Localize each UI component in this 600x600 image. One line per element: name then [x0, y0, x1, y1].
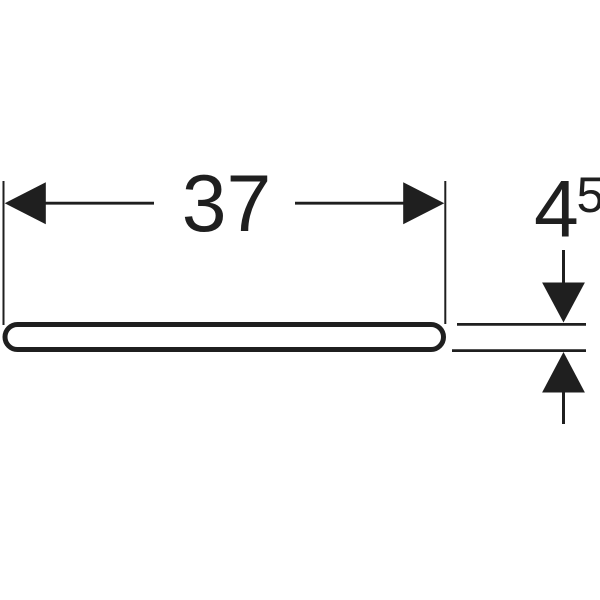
- shelf profile (stadium outline): [5, 325, 444, 350]
- down arrowhead: [542, 283, 585, 323]
- extension line right: [444, 181, 446, 324]
- thickness extension line bottom: [452, 349, 586, 352]
- arrowhead right: [403, 182, 444, 224]
- extension line left: [3, 181, 5, 325]
- svg-text:37: 37: [182, 159, 272, 249]
- svg-text:4: 4: [534, 165, 579, 255]
- svg-text:5: 5: [577, 167, 600, 223]
- arrowhead left: [5, 182, 46, 224]
- up arrowhead: [542, 352, 585, 393]
- dimension line right segment: [295, 202, 404, 205]
- down arrow stem: [562, 250, 565, 284]
- thickness extension line top: [457, 323, 586, 326]
- up arrow stem: [562, 393, 565, 425]
- dimension line left segment: [45, 202, 154, 205]
